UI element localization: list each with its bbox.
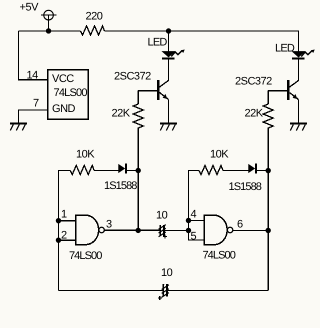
wire column 2 upper <box>267 91 269 104</box>
ground (IC pin 7) <box>10 122 27 130</box>
node: pin 4 junction <box>186 218 191 223</box>
capacitor C2 10 <box>162 284 169 297</box>
svg-text:74LS00: 74LS00 <box>202 250 235 262</box>
transistor Q2 2SC372 <box>287 80 299 100</box>
wire pin 1 <box>58 220 75 222</box>
svg-text:3: 3 <box>106 218 112 230</box>
wire LED2 cathode to Q2 collector <box>298 60 300 80</box>
svg-text:2: 2 <box>61 229 67 241</box>
node: gate1 output junction <box>135 228 140 233</box>
wire column 2 lower <box>267 128 269 291</box>
svg-text:74LS00: 74LS00 <box>54 87 88 99</box>
wire row1 left start and left column <box>58 170 70 290</box>
svg-text:LED: LED <box>148 36 168 48</box>
ground (Q2 emitter) <box>290 122 307 130</box>
node: pin 2 junction <box>56 237 61 242</box>
svg-text:10K: 10K <box>210 149 229 161</box>
node: pin 1 junction <box>56 218 61 223</box>
svg-text:22K: 22K <box>112 107 131 119</box>
wire left drop to pin 14 <box>19 31 48 80</box>
LED LED2 <box>291 50 314 60</box>
label + (C1) <box>163 235 167 239</box>
node: pin 5 junction <box>186 228 191 233</box>
NAND gate U1A 74LS00 <box>76 215 105 245</box>
IC power block U1 <box>48 70 89 120</box>
resistor 22K (2) <box>263 104 273 128</box>
svg-text:7: 7 <box>33 97 39 109</box>
wire pin 5 <box>188 230 204 240</box>
svg-text:10K: 10K <box>76 148 95 160</box>
capacitor C1 10 <box>159 225 166 237</box>
node: D2 cathode junction <box>265 168 270 173</box>
svg-text:+5V: +5V <box>20 1 40 13</box>
wire LED1 branch from rail <box>168 31 170 51</box>
svg-text:LED: LED <box>275 43 295 55</box>
label + (C2) <box>158 296 162 300</box>
svg-text:220: 220 <box>86 10 103 22</box>
svg-text:10: 10 <box>156 209 168 221</box>
transistor Q1 2SC372 <box>157 80 169 100</box>
wire pin 7 to ground <box>19 110 48 123</box>
wire 10K2 to D2 <box>223 170 249 172</box>
wire gate1 output <box>104 229 159 231</box>
wire gate2 output <box>233 229 268 231</box>
wire Q2 base <box>268 90 287 92</box>
wire pin 2 <box>58 239 75 241</box>
wire LED2 branch <box>298 31 300 51</box>
wire Q1 base <box>138 90 157 92</box>
svg-text:2SC372: 2SC372 <box>235 76 272 88</box>
svg-text:1S1588: 1S1588 <box>228 181 261 193</box>
svg-text:5: 5 <box>190 231 196 243</box>
NAND gate U1B 74LS00 <box>204 215 233 245</box>
wire 10K1 to D1 <box>94 169 118 171</box>
svg-text:6: 6 <box>237 219 243 231</box>
wire D2 to column 2 <box>257 170 268 172</box>
diode D2 1S1588 <box>248 163 257 173</box>
svg-text:74LS00: 74LS00 <box>69 250 102 262</box>
svg-text:14: 14 <box>27 69 39 81</box>
svg-text:10: 10 <box>161 267 173 279</box>
svg-text:VCC: VCC <box>52 73 74 85</box>
svg-text:4: 4 <box>190 209 196 221</box>
wire Q2 emitter to ground <box>298 100 300 123</box>
node: LED1 branch junction <box>166 28 171 33</box>
wire column 1 upper <box>137 91 139 104</box>
node: D1 cathode junction <box>135 168 140 173</box>
wire LED1 cathode to Q1 collector <box>168 60 170 81</box>
node: +5V junction <box>46 28 51 33</box>
LED LED1 <box>161 50 184 60</box>
wire Q1 emitter to ground <box>168 100 170 123</box>
resistor 10K (2) <box>199 166 223 175</box>
wire row2 start and pins column <box>188 171 199 231</box>
wire bottom feedback right <box>168 290 268 292</box>
wire bottom feedback left <box>58 289 162 291</box>
node: gate2 output junction <box>265 228 270 233</box>
wire pin 4 <box>188 220 204 222</box>
wire top rail left segment <box>19 30 81 32</box>
diode D1 1S1588 <box>118 163 127 173</box>
resistor 220 <box>81 26 105 35</box>
wire column 1 lower <box>137 127 139 230</box>
svg-text:2SC372: 2SC372 <box>114 70 151 82</box>
wire D1 to column 1 <box>127 169 138 171</box>
svg-text:22K: 22K <box>245 108 264 120</box>
svg-text:1: 1 <box>61 208 67 220</box>
wire top rail right segment with corner down to LED2 <box>105 31 299 51</box>
svg-text:GND: GND <box>52 103 76 115</box>
resistor 22K (1) <box>133 104 143 128</box>
resistor 10K (1) <box>70 165 94 174</box>
svg-text:1S1588: 1S1588 <box>104 180 137 192</box>
power +5V symbol <box>41 10 57 31</box>
ground (Q1 emitter) <box>160 122 177 130</box>
wire C1 to pin 5 <box>165 229 189 231</box>
